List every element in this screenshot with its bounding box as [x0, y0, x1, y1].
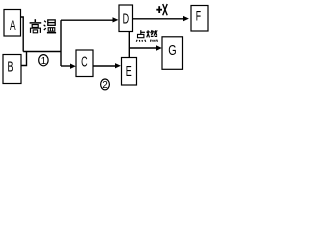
label +X (letter X) — [163, 4, 168, 15]
label +X (plus sign) — [156, 6, 162, 13]
svg-text:F: F — [196, 9, 201, 25]
svg-text:B: B — [8, 58, 14, 75]
wire D down to E — [128, 32, 130, 58]
box F — [191, 6, 208, 32]
svg-text:G: G — [168, 41, 176, 58]
box D — [119, 5, 133, 32]
svg-text:E: E — [126, 63, 132, 80]
wire from A to bracket — [21, 17, 24, 52]
wire branch to G with arrow — [129, 45, 162, 50]
node circled 2 — [101, 79, 110, 91]
wire from B to bracket — [21, 52, 27, 66]
box E — [122, 58, 137, 86]
wire C to E with arrow — [93, 63, 121, 68]
svg-text:D: D — [123, 10, 130, 27]
label 点燃 (glyph 燃) — [147, 30, 158, 42]
wire branch to D with arrow — [61, 17, 118, 22]
svg-text:2: 2 — [102, 80, 108, 91]
label 点燃 (glyph 点) — [136, 30, 145, 42]
box A — [4, 10, 21, 37]
label 高温 (glyph 温) — [44, 20, 56, 33]
svg-text:1: 1 — [41, 56, 47, 67]
box G — [162, 37, 183, 70]
svg-text:C: C — [81, 53, 88, 70]
node circled 1 — [39, 55, 48, 67]
wire main horizontal line with node 1 — [23, 51, 61, 53]
svg-text:A: A — [10, 19, 16, 33]
box C — [76, 50, 93, 77]
box B — [3, 55, 21, 84]
label 高温 (glyph 高) — [30, 19, 42, 33]
wire D to F with arrow — [133, 16, 189, 21]
wire branch to C with arrow — [61, 64, 76, 69]
wire vertical trunk — [60, 20, 62, 66]
